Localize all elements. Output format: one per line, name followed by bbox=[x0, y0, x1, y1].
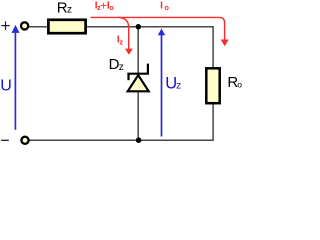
terminal - (bottom input terminal) bbox=[21, 137, 28, 144]
label Dz bbox=[109, 56, 124, 73]
resistor Ro bbox=[206, 68, 219, 103]
svg-text:I: I bbox=[160, 1, 163, 12]
label Iz+Io bbox=[95, 0, 115, 13]
current arrow Iz arrowhead bbox=[125, 49, 133, 55]
label Io bbox=[160, 1, 169, 12]
svg-text:o: o bbox=[164, 3, 169, 12]
label Uz bbox=[165, 74, 181, 92]
svg-text:z: z bbox=[67, 5, 72, 16]
current arrow Iz (red branch curving down toward zener) bbox=[119, 17, 129, 48]
svg-text:o: o bbox=[109, 3, 114, 12]
current arrow Io (red arrowhead pointing down at Ro) bbox=[221, 40, 229, 47]
label Ro bbox=[227, 74, 242, 91]
wire top (input to Rz) bbox=[28, 26, 48, 28]
svg-text:o: o bbox=[237, 80, 242, 90]
svg-text:z: z bbox=[119, 62, 124, 73]
wire bottom rail bbox=[29, 139, 214, 141]
label Iz bbox=[117, 35, 124, 47]
svg-text:U: U bbox=[0, 78, 12, 95]
current arrow Iz+Io (red, from Rz output, curving down at far right into Io arrow) bbox=[91, 17, 225, 40]
terminal + (top input terminal) bbox=[21, 22, 28, 29]
voltage arrow U (blue, input voltage, pointing up) bbox=[12, 25, 20, 130]
label Rz bbox=[57, 0, 72, 17]
svg-text:z: z bbox=[176, 81, 181, 92]
resistor Rz bbox=[48, 20, 85, 33]
plus sign bbox=[1, 21, 9, 29]
node B (bottom junction dot) bbox=[136, 137, 142, 143]
wire diode branch vertical bbox=[137, 27, 139, 141]
wire top (Rz to right corner, down to Ro) bbox=[87, 27, 213, 69]
minus sign bbox=[1, 139, 9, 141]
node A (top junction dot) bbox=[136, 24, 141, 29]
zener diode Dz bbox=[127, 64, 149, 92]
wire right vertical (Ro bottom to bottom rail) bbox=[212, 104, 214, 141]
svg-text:z: z bbox=[119, 38, 123, 47]
voltage arrow Uz (blue, across zener, pointing up) bbox=[158, 29, 165, 137]
label U bbox=[0, 78, 12, 95]
